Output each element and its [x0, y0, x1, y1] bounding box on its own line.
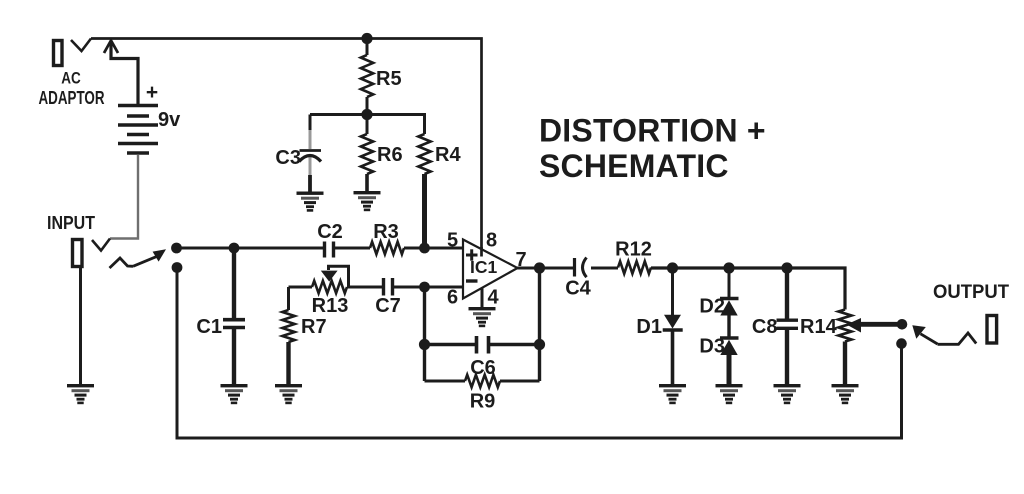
node: C6 left	[419, 339, 430, 350]
resistor R6	[361, 115, 373, 192]
node: input tip junction	[171, 243, 182, 254]
ground (C1)	[221, 384, 248, 404]
node: D1 junction	[667, 262, 678, 273]
svg-text:5: 5	[447, 230, 458, 252]
resistor R5	[361, 39, 373, 115]
svg-text:C3: C3	[275, 147, 301, 169]
output signal arrow	[912, 325, 937, 344]
svg-text:IC1: IC1	[470, 257, 498, 277]
svg-text:+: +	[146, 81, 158, 104]
capacitor C4	[575, 258, 619, 278]
node: D2 junction	[723, 262, 734, 273]
input jack connector	[73, 239, 111, 267]
svg-text:R5: R5	[376, 68, 402, 90]
svg-text:C2: C2	[317, 221, 343, 243]
node: C1 junction	[229, 243, 240, 254]
node: output return	[896, 338, 907, 349]
ground (input jack)	[67, 384, 94, 404]
ground (C3)	[297, 192, 324, 212]
node: pin6/C6 junction	[419, 282, 430, 293]
svg-text:9v: 9v	[158, 109, 181, 131]
ground (R14)	[832, 384, 859, 404]
op-amp IC1	[463, 240, 518, 299]
ground (D1)	[659, 384, 686, 404]
resistor R12	[618, 261, 651, 273]
R14 wiper arrow to output	[847, 318, 903, 333]
ground (R7)	[275, 384, 302, 404]
svg-text:R12: R12	[615, 239, 652, 261]
svg-text:R4: R4	[435, 144, 461, 166]
svg-text:D1: D1	[636, 316, 662, 338]
svg-text:R13: R13	[312, 295, 349, 317]
wire: signal line input to C2	[176, 247, 324, 250]
capacitor C2	[325, 242, 371, 258]
op-amp - input mark	[466, 279, 478, 282]
svg-text:C4: C4	[565, 278, 591, 300]
capacitor C8	[777, 268, 799, 384]
wire: +9V top rail from adaptor to pin 8 drop	[91, 39, 482, 251]
svg-text:6: 6	[447, 287, 458, 309]
wire: R3 to op-amp pin 5	[404, 247, 463, 250]
wire: ground return bottom rail	[177, 268, 902, 439]
diode D1	[663, 268, 683, 384]
svg-text:C7: C7	[375, 295, 401, 317]
resistor R3	[370, 242, 404, 254]
node: input return junction	[172, 262, 183, 273]
node: output tip	[897, 319, 908, 330]
resistor R4	[418, 134, 430, 248]
svg-text:R9: R9	[470, 391, 496, 413]
svg-text:8: 8	[486, 230, 497, 252]
capacitor C6	[425, 336, 540, 354]
node: C6 right	[534, 339, 545, 350]
wire: input jack sleeve to ground	[79, 267, 82, 384]
svg-text:INPUT: INPUT	[47, 213, 95, 233]
capacitor C1	[223, 248, 245, 384]
svg-text:D3: D3	[699, 336, 725, 358]
svg-text:R7: R7	[301, 316, 327, 338]
ground (C8)	[774, 384, 801, 404]
input signal arrow	[110, 255, 160, 268]
wire: pin 7 out	[517, 267, 574, 270]
svg-text:C1: C1	[196, 316, 222, 338]
ground (R6)	[354, 191, 381, 211]
wire: battery negative to input jack ring (grey)	[110, 155, 138, 239]
svg-text:ADAPTOR: ADAPTOR	[39, 88, 105, 108]
svg-text:R3: R3	[373, 221, 399, 243]
diode D3	[720, 315, 739, 384]
wire: pin 8 stub	[480, 247, 483, 257]
op-amp + input mark	[466, 249, 478, 260]
svg-text:D2: D2	[699, 296, 725, 318]
AC adaptor jack connector	[54, 39, 92, 66]
battery B1 9v	[118, 106, 158, 154]
diode D2	[720, 268, 739, 316]
node: R5 bottom junction	[361, 109, 372, 120]
node: C8 junction	[781, 262, 792, 273]
node: pin5/R4 junction	[419, 243, 430, 254]
output jack connector	[938, 316, 997, 345]
node: R5 top junction	[361, 33, 372, 44]
svg-text:DISTORTION +: DISTORTION +	[539, 113, 766, 149]
resistor R9	[425, 375, 540, 387]
svg-text:OUTPUT: OUTPUT	[933, 282, 1009, 303]
svg-text:AC: AC	[61, 70, 81, 88]
wire: R12 to R14	[651, 268, 845, 310]
svg-text:R14: R14	[800, 316, 838, 338]
arrow on adaptor wire	[104, 41, 138, 105]
wire: feedback right leg	[538, 268, 541, 381]
wire: C3/R6/R4 rail	[310, 115, 425, 135]
svg-text:4: 4	[487, 287, 499, 309]
label AC ADAPTOR	[39, 70, 105, 109]
resistor R7	[282, 287, 294, 384]
potentiometer R13	[289, 266, 384, 293]
svg-text:R6: R6	[377, 144, 403, 166]
capacitor C3	[299, 115, 321, 192]
ground (D3)	[716, 384, 743, 404]
potentiometer R14	[839, 310, 852, 385]
svg-text:C8: C8	[752, 316, 778, 338]
ground (pin 4)	[469, 307, 496, 327]
svg-text:SCHEMATIC: SCHEMATIC	[539, 148, 729, 184]
capacitor C7	[384, 278, 464, 296]
wire: feedback left leg	[423, 287, 426, 381]
node: pin 7 junction	[534, 262, 545, 273]
wire: pin 4 to ground	[481, 288, 484, 308]
